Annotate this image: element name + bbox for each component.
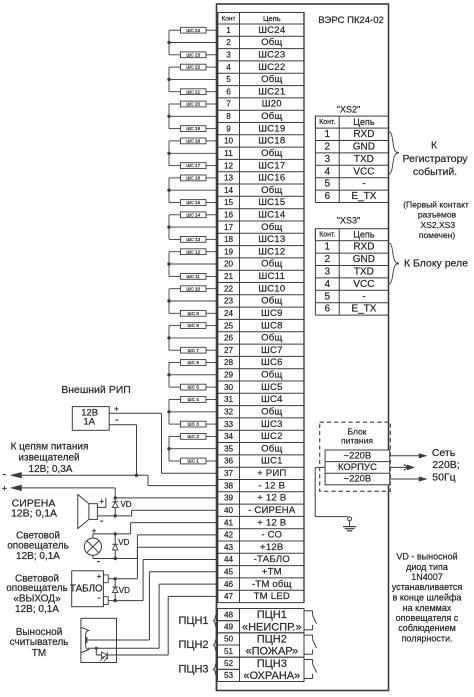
common wire group ШС2/ШС1 to contact 35 [169,436,218,461]
svg-text:соблюдением: соблюдением [398,623,456,633]
svg-text:-ТАБЛО: -ТАБЛО [254,554,290,565]
junction dot group ШС2/ШС1 [167,447,170,450]
brace ПЦН1 [213,614,217,628]
svg-text:ШС 20: ШС 20 [186,102,200,107]
junction dot group ШС20/ШС19 [167,115,170,118]
svg-text:ШС11: ШС11 [259,271,285,282]
svg-text:17: 17 [224,223,234,232]
svg-text:в конце шлейфа: в конце шлейфа [393,593,462,603]
junction dot siren VD top [114,496,117,499]
resistor loop ШС14 [181,212,207,218]
svg-text:12: 12 [224,161,234,170]
svg-text:12В; 0,1А: 12В; 0,1А [11,508,57,520]
svg-text:6: 6 [325,304,331,315]
svg-text:ШС 1: ШС 1 [188,459,200,464]
svg-text:"XS2": "XS2" [337,105,360,115]
svg-text:~220В: ~220В [344,451,372,462]
svg-text:ШС14: ШС14 [258,210,286,221]
wire РИП plus to contact 37 +РИП [109,413,217,473]
wire ТАБЛО plus to +12В contact 43 [108,547,217,579]
svg-text:34: 34 [224,432,234,441]
brace ПЦН3 [213,663,217,677]
svg-text:ШС24: ШС24 [258,25,286,36]
svg-text:ПЦН2: ПЦН2 [257,634,287,646]
TM contact probe symbol [81,627,89,652]
wire ШС4 to contact 31 [206,399,218,401]
svg-text:+: + [114,405,119,414]
brace XS3 pins 1-4 [389,243,399,284]
svg-text:ШС 18: ШС 18 [186,139,200,144]
svg-text:ШС 11: ШС 11 [186,274,200,279]
resistor loop ШС10 [181,286,207,292]
resistor loop ШС1 [181,458,207,464]
svg-text:RXD: RXD [353,242,374,253]
svg-text:~220В: ~220В [344,474,372,485]
svg-text:VCC: VCC [353,166,374,177]
svg-text:ШС7: ШС7 [261,345,283,356]
svg-text:26: 26 [224,334,234,343]
svg-text:Общ: Общ [261,185,282,196]
resistor loop ШС24 [181,27,207,33]
svg-text:E_TX: E_TX [351,191,376,202]
wire lamp plus to +12В contact 41 [93,523,218,539]
junction dot lamp VD top [114,532,117,535]
diode VD across lamp [112,534,129,559]
svg-text:Общ: Общ [261,407,282,418]
arrow minus to detectors supply [3,469,137,481]
label - on РИП output [115,414,119,426]
svg-text:2: 2 [325,254,331,265]
svg-text:К Блоку реле: К Блоку реле [404,257,468,269]
svg-text:ШС 12: ШС 12 [186,249,200,254]
svg-text:4: 4 [325,166,331,177]
svg-text:5: 5 [226,75,231,84]
svg-text:"XS3": "XS3" [337,216,360,226]
svg-text:+: + [97,572,102,581]
wire ШС11 to contact 21 [206,275,218,277]
device box ВЭРС ПК24-02 outline [217,4,389,691]
svg-text:ШС2: ШС2 [261,431,283,442]
svg-text:29: 29 [224,371,234,380]
svg-text:КОРПУС: КОРПУС [338,462,377,473]
resistor loop ШС12 [181,249,207,255]
svg-text:GND: GND [353,142,375,153]
connector table XS3 [315,216,388,316]
svg-text:8: 8 [226,112,231,121]
junction dot group ШС24/ШС23 [167,41,170,44]
earth ground symbol [343,517,356,531]
svg-text:220В;: 220В; [432,459,459,471]
svg-text:ШС 3: ШС 3 [188,422,200,427]
resistor loop ШС3 [181,421,207,427]
svg-text:ТМ LED: ТМ LED [254,591,290,602]
wire plus feed down to +12В contact 39 [115,488,217,498]
svg-text:5: 5 [325,179,331,190]
resistor loop ШС18 [181,138,207,144]
svg-text:+: + [2,483,7,493]
svg-text:7: 7 [226,100,231,109]
resistor loop ШС19 [181,126,207,132]
junction dot group ШС18/ШС17 [167,152,170,155]
svg-text:GND: GND [353,254,375,265]
svg-text:ШС5: ШС5 [261,382,283,393]
svg-text:Цепь: Цепь [353,117,375,127]
svg-text:ШС 21: ШС 21 [186,89,200,94]
wire TM LED to contact 47 [107,596,217,655]
terminal table header Конт/Цепь [218,13,305,25]
ТАБЛО annunciator box [70,571,108,607]
junction dot group ШС4/ШС3 [167,410,170,413]
junction dot ТАБЛО VD top [114,577,117,580]
diode VD across siren [112,498,131,516]
svg-text:30: 30 [224,383,234,392]
svg-text:ТМ: ТМ [32,648,46,659]
resistor loop ШС21 [181,89,207,95]
arrow mains phase top [390,454,427,459]
svg-text:1А: 1А [83,417,95,428]
common wire group ШС22/ШС21 to contact 5 [169,67,218,92]
svg-text:18: 18 [224,235,234,244]
resistor loop ШС17 [181,163,207,169]
wire TM shell to contact 46 -ТМ общ [88,584,218,648]
wire РИП minus to node -12В [109,425,136,475]
svg-text:помечен): помечен) [419,230,455,240]
svg-text:38: 38 [224,481,234,490]
svg-text:4: 4 [226,63,231,72]
svg-text:48: 48 [224,610,234,619]
wire ШС9 to contact 24 [206,312,218,314]
resistor loop ШС4 [181,397,207,403]
wire ШС20 to contact 7 [206,103,218,105]
common wire group ШС12/ШС11 to contact 20 [169,252,218,277]
external power supply РИП box 12В 1А [72,407,109,431]
relay switch contact ПЦН2 [304,635,317,654]
brace ПЦН2 [213,638,217,652]
svg-text:ШС 19: ШС 19 [186,126,200,131]
wire ШС24 to contact 1 [206,29,218,31]
svg-text:ШС 5: ШС 5 [188,385,200,390]
label Световой оповещатель 12В; 0,1А [7,531,69,562]
svg-text:11: 11 [224,149,233,158]
svg-text:К цепям питания: К цепям питания [11,441,89,452]
wire ШС8 to contact 25 [206,325,218,327]
svg-text:49: 49 [224,623,234,632]
svg-text:оповещателя с: оповещателя с [396,613,459,623]
junction dot group ШС12/ШС11 [167,262,170,265]
label СИРЕНА 12В; 0,1А [11,497,57,519]
svg-text:- СИРЕНА: - СИРЕНА [248,505,296,516]
common wire group ШС10/ШС9 to contact 23 [169,289,218,314]
wire ШС3 to contact 33 [206,423,218,425]
diode VD across ТАБЛО [112,579,130,601]
svg-text:Цепь: Цепь [263,14,281,23]
svg-text:3: 3 [325,267,331,278]
svg-text:39: 39 [224,494,234,503]
junction dot TM shell LED [95,647,98,650]
wire siren plus to +12В contact 39 [97,498,106,508]
svg-text:10: 10 [224,137,234,146]
wire ШС14 to contact 16 [206,214,218,216]
wire ШС13 to contact 18 [206,238,218,240]
svg-text:считыватель: считыватель [10,637,69,648]
svg-text:25: 25 [224,321,234,330]
svg-text:+ РИП: + РИП [257,468,286,479]
svg-text:Общ: Общ [261,443,282,454]
svg-text:ШС19: ШС19 [258,123,285,134]
wire КОРПУС to earth [315,467,348,516]
svg-text:ШС 9: ШС 9 [188,311,200,316]
svg-text:Регистратору: Регистратору [402,153,468,165]
label Световой оповещатель ВЫХОД 12В; 0,1А [6,574,68,615]
wire ШС19 to contact 9 [206,128,218,130]
svg-text:6: 6 [226,87,231,96]
resistor loop ШС6 [181,360,207,366]
svg-text:E_TX: E_TX [351,304,376,315]
wire ШС5 to contact 30 [206,386,218,388]
svg-text:ШС 6: ШС 6 [188,360,200,365]
svg-text:12В; 0,1А: 12В; 0,1А [15,604,59,615]
svg-text:ШС 2: ШС 2 [188,434,200,439]
svg-text:ШС 4: ШС 4 [188,397,200,402]
wire -12В node to contact 38 [137,475,218,485]
svg-text:ШС 7: ШС 7 [188,348,200,353]
label Внешний РИП [61,384,131,396]
wire siren minus to contact 40 -СИРЕНА [97,510,217,516]
wire ШС7 to contact 27 [206,349,218,351]
svg-text:33: 33 [224,420,234,429]
svg-text:2: 2 [226,38,231,47]
svg-text:полярности.: полярности. [402,634,453,644]
svg-text:Общ: Общ [261,222,282,233]
svg-text:12В; 0,3А: 12В; 0,3А [29,464,73,475]
TM reader box [81,618,117,662]
svg-text:28: 28 [224,358,234,367]
svg-text:(Первый контакт: (Первый контакт [403,200,469,210]
svg-text:ШС13: ШС13 [258,234,285,245]
svg-text:ШС22: ШС22 [258,62,285,73]
svg-text:диод типа: диод типа [406,562,448,572]
common wire group ШС18/ШС17 to contact 11 [169,141,218,166]
svg-text:42: 42 [224,531,234,540]
svg-text:ШС 15: ШС 15 [186,200,200,205]
wire lamp minus to contact 42 -СО [93,535,218,559]
svg-text:питания: питания [341,436,373,446]
svg-text:15: 15 [224,198,234,207]
svg-text:ШС3: ШС3 [261,419,283,430]
svg-text:ШС12: ШС12 [258,246,285,257]
label + lamp [92,526,97,535]
junction dot group ШС6/ШС5 [167,373,170,376]
svg-text:6: 6 [325,191,331,202]
label ПЦН2 [178,639,208,651]
svg-text:ШС15: ШС15 [258,197,285,208]
svg-text:3: 3 [325,154,331,165]
svg-text:13: 13 [224,174,234,183]
svg-text:22: 22 [224,284,234,293]
junction dot group ШС10/ШС9 [167,299,170,302]
svg-text:Внешний РИП: Внешний РИП [61,384,131,396]
label - lamp [97,556,101,568]
junction dot siren VD bottom [114,514,117,517]
svg-text:Конт.: Конт. [319,119,335,126]
svg-text:+12В: +12В [260,542,283,553]
svg-text:-: - [362,291,365,302]
svg-text:+: + [99,497,104,506]
svg-text:VD: VD [120,500,131,509]
svg-text:3: 3 [226,51,231,60]
vertical device edge through ПЦН area [216,603,218,691]
LED of TM reader [96,648,107,661]
svg-text:Общ: Общ [261,259,282,270]
siren loudspeaker symbol [78,495,98,529]
svg-text:41: 41 [224,518,234,527]
svg-text:40: 40 [224,506,234,515]
label - siren [100,515,104,527]
svg-text:35: 35 [224,444,234,453]
svg-text:«ПОЖАР»: «ПОЖАР» [245,646,298,658]
resistor loop ШС9 [181,310,207,316]
svg-text:44: 44 [224,555,234,564]
svg-text:К: К [431,140,438,152]
svg-text:событий.: событий. [413,166,457,178]
svg-text:TXD: TXD [354,154,374,165]
svg-text:Общ: Общ [261,370,282,381]
arrow ground КОРПУС [390,465,415,471]
svg-text:-ТМ общ: -ТМ общ [252,579,292,590]
power terminals ~220В КОРПУС ~220В [325,450,390,485]
svg-text:-: - [362,179,365,190]
svg-text:ШС 13: ШС 13 [186,237,200,242]
svg-text:TXD: TXD [354,267,374,278]
junction dot ТАБЛО VD bottom [114,599,117,602]
svg-text:Общ: Общ [261,37,282,48]
svg-text:ШС 16: ШС 16 [186,176,200,181]
common wire group ШС16/ШС15 to contact 14 [169,178,218,203]
svg-text:на клеммах: на клеммах [403,603,452,613]
terminal table rows 1-47 [218,13,305,603]
svg-text:ШС1: ШС1 [261,456,283,467]
relay switch contact ПЦН3 [304,660,317,679]
resistor loop ШС15 [181,200,207,206]
svg-text:Конт: Конт [222,15,236,22]
svg-text:52: 52 [224,659,234,668]
svg-text:19: 19 [224,247,234,256]
svg-text:RXD: RXD [353,129,374,140]
common wire group ШС4/ШС3 to contact 32 [169,400,218,425]
svg-text:ШС8: ШС8 [261,320,283,331]
svg-text:1: 1 [325,129,331,140]
svg-text:Сеть: Сеть [432,447,456,459]
svg-text:«ОХРАНА»: «ОХРАНА» [243,670,300,682]
label ПЦН1 [178,615,208,627]
svg-text:ШС10: ШС10 [258,283,285,294]
svg-text:37: 37 [224,469,234,478]
relay output table ПЦН contacts 48-53 [218,609,305,683]
resistor loop ШС2 [181,434,207,440]
svg-text:ШС21: ШС21 [258,86,285,97]
common wire group ШС20/ШС19 to contact 8 [169,104,218,129]
svg-text:16: 16 [224,211,234,220]
label К цепям питания извещателей 12В; 0,3А [11,441,89,475]
note VD - выносной диод типа 1N4007 [392,552,463,644]
label К Блоку реле [404,257,468,269]
svg-text:46: 46 [224,580,234,589]
svg-text:- 12 В: - 12 В [258,480,285,491]
svg-text:ШС6: ШС6 [261,357,283,368]
svg-text:-: - [97,556,101,568]
svg-text:24: 24 [224,309,234,318]
svg-text:32: 32 [224,408,234,417]
svg-text:-: - [115,414,119,426]
svg-text:Общ: Общ [261,111,282,122]
label К Регистратору событий [402,140,468,178]
label + siren [99,497,104,506]
wire ШС22 to contact 4 [206,66,218,68]
junction dot group ШС14/ШС13 [167,225,170,228]
svg-text:извещателей: извещателей [18,453,79,464]
svg-text:VD: VD [118,538,129,547]
wire ШС15 to contact 15 [206,202,218,204]
svg-text:XS2,XS3: XS2,XS3 [421,220,456,230]
resistor loop ШС16 [181,175,207,181]
svg-text:36: 36 [224,457,234,466]
svg-text:VD: VD [119,586,130,595]
wire ШС6 to contact 28 [206,362,218,364]
svg-text:ШС 24: ШС 24 [186,28,200,33]
common wire group ШС8/ШС7 to contact 26 [169,326,218,351]
svg-text:45: 45 [224,568,234,577]
svg-text:Общ: Общ [261,333,282,344]
svg-text:+ТМ: +ТМ [262,567,282,578]
svg-text:Ш20: Ш20 [262,99,282,110]
svg-text:2: 2 [325,142,331,153]
svg-text:1N4007: 1N4007 [411,572,443,582]
svg-text:ПЦН3: ПЦН3 [178,664,208,676]
svg-text:ПЦН3: ПЦН3 [257,658,287,670]
connector table XS2 [315,105,388,203]
resistor loop ШС23 [181,52,207,58]
wire ШС18 to contact 10 [206,140,218,142]
svg-text:VCC: VCC [353,279,374,290]
wire ШС12 to contact 19 [206,251,218,253]
label + on РИП output [114,405,119,414]
svg-text:53: 53 [224,671,234,680]
arrow mains phase bottom [390,477,427,482]
svg-text:VD - выносной: VD - выносной [396,552,457,562]
junction dot group ШС16/ШС15 [167,189,170,192]
svg-text:Цепь: Цепь [353,230,375,240]
svg-text:ШС 17: ШС 17 [186,163,200,168]
svg-text:ШС18: ШС18 [258,136,285,147]
svg-text:ШС 23: ШС 23 [186,52,200,57]
svg-text:Общ: Общ [261,74,282,85]
svg-text:ПЦН1: ПЦН1 [257,609,287,621]
wire TM center pin to contact 45 +ТМ [87,572,217,640]
svg-text:5: 5 [325,291,331,302]
label Сеть 220В; 50Гц [432,447,460,484]
resistor loop ШС13 [181,237,207,243]
junction dot -12В node [135,474,138,477]
resistor loop ШС8 [181,323,207,329]
label Выносной считыватель ТМ [10,627,69,659]
svg-text:Общ: Общ [261,148,282,159]
svg-text:ВЭРС ПК24-02: ВЭРС ПК24-02 [318,15,384,26]
note Первый контакт разъемов XS2,XS3 помечен [403,200,469,241]
svg-text:ПЦН1: ПЦН1 [178,615,208,627]
common wire group ШС14/ШС13 to contact 17 [169,215,218,240]
svg-text:- СО: - СО [261,530,282,541]
brace XS2 pins 1-4 [389,132,399,175]
